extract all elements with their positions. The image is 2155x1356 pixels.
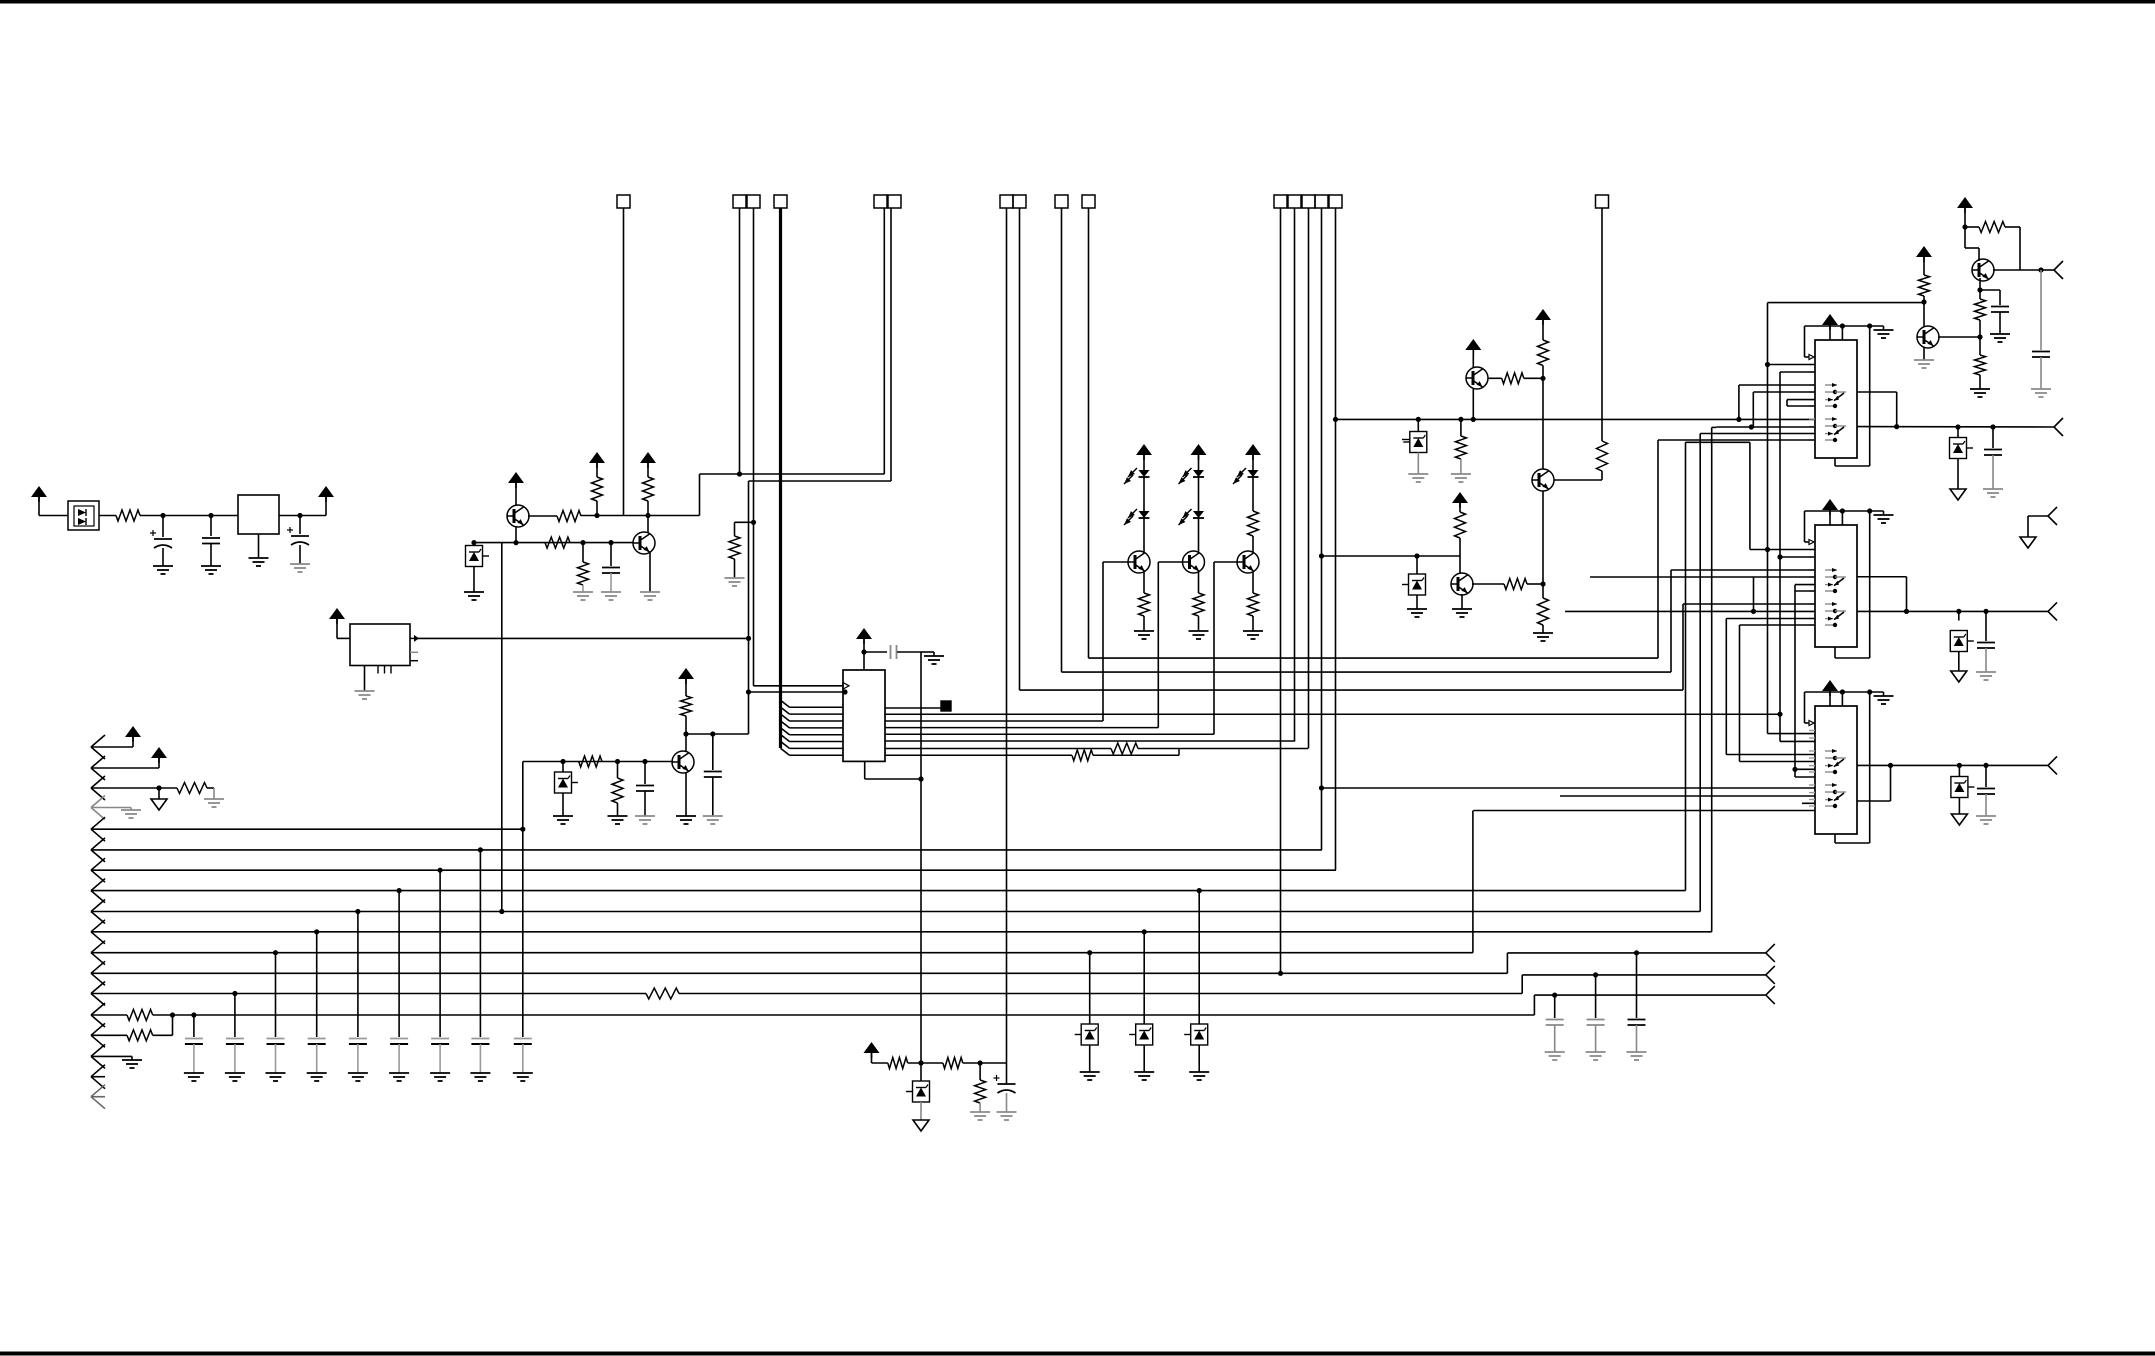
riser line8 bbox=[1685, 442, 1687, 890]
ground bbox=[266, 1072, 286, 1074]
open triangle gnd bbox=[151, 799, 167, 810]
transistor Q2 bbox=[647, 516, 649, 534]
resistor R5 bbox=[545, 537, 570, 548]
U4 top rail bbox=[1805, 510, 1884, 512]
U5 top rail bbox=[1805, 691, 1884, 693]
U3 enable bracket bbox=[1804, 326, 1806, 357]
VCC arrow Q8 bbox=[1452, 492, 1468, 503]
gray ground bbox=[734, 559, 736, 578]
VCC arrow Q1 bbox=[508, 472, 524, 483]
riser line14 (ANT line3) bbox=[1533, 995, 1535, 1015]
antenna out1 bbox=[2041, 269, 2054, 271]
pin2 dot bbox=[842, 689, 847, 694]
wire base-left riser x=502 bbox=[501, 543, 503, 912]
zener Z6 bbox=[1956, 609, 1961, 614]
node n3 bbox=[297, 513, 302, 518]
ground bbox=[184, 1072, 204, 1074]
capacitor C12 bbox=[1983, 763, 1988, 768]
VCC arrow Q3 bbox=[678, 668, 694, 679]
capacitor CC5 bbox=[357, 912, 359, 1029]
ANT_B3 main line bbox=[1857, 764, 2048, 766]
node bbox=[1962, 224, 1967, 229]
conn arrow A2 bbox=[91, 756, 105, 768]
U5 switch contacts bbox=[1825, 750, 1837, 752]
resistor R24 bbox=[1975, 299, 1986, 320]
wire to R7 bbox=[735, 521, 754, 523]
U4 pin3 line (y=570) from riser bbox=[1671, 569, 1815, 571]
ground bbox=[1243, 630, 1263, 632]
connector pad J8a bbox=[1274, 195, 1287, 208]
gray ground bbox=[573, 591, 593, 593]
VCC arrow Q9 bbox=[1535, 309, 1551, 320]
conn arrow A17 bbox=[91, 1065, 105, 1077]
U4 top-switch output wrap bbox=[1857, 576, 1907, 578]
ground bbox=[513, 1072, 533, 1074]
antenna AL1 bbox=[1766, 944, 1775, 953]
ground bbox=[201, 565, 221, 567]
transistor Q6 bbox=[1237, 551, 1259, 573]
wire J8d drop bbox=[1321, 208, 1323, 850]
resistor R6 bbox=[580, 540, 585, 545]
node bbox=[1921, 299, 1926, 304]
wire bbox=[140, 515, 238, 517]
U3 switch contacts bbox=[1825, 384, 1837, 386]
node bbox=[594, 513, 599, 518]
line y=788 to U5 bbox=[1322, 787, 1816, 789]
capacitor CC3 bbox=[275, 953, 277, 1028]
resistor R10 bbox=[615, 759, 620, 764]
conn arrow bus9 bbox=[91, 900, 105, 912]
LED base risers bbox=[1102, 562, 1104, 721]
VCC arrow R4 bbox=[640, 452, 656, 463]
node bbox=[1540, 581, 1545, 586]
U4 pin9 to U5 pin3 bus bbox=[1726, 618, 1815, 620]
U4 right wrap bbox=[1869, 511, 1871, 658]
resistor R32 bbox=[943, 1058, 963, 1069]
zener Z5 bbox=[1955, 424, 1960, 429]
resistor R9 bbox=[579, 756, 602, 767]
conn arrow bus13 bbox=[91, 982, 105, 994]
wire J8e drop bbox=[1335, 208, 1337, 870]
connector pad J2a bbox=[733, 195, 746, 208]
switch IC U5 box bbox=[1815, 706, 1857, 834]
riser line11 bbox=[1472, 811, 1474, 953]
connector pad J2b bbox=[747, 195, 760, 208]
capacitor C11 bbox=[1983, 609, 1988, 614]
ground bbox=[225, 1072, 245, 1074]
Q3 base line bbox=[523, 761, 673, 763]
capacitor CC1 bbox=[193, 1015, 195, 1028]
line y=797 to U5 bbox=[1560, 795, 1815, 797]
conn arrow bus8 bbox=[91, 879, 105, 891]
conn arrow A4 bbox=[91, 796, 105, 808]
wire bbox=[1965, 247, 1979, 249]
Q1 emitter to base line bbox=[515, 526, 517, 543]
switch IC U4 box bbox=[1815, 525, 1857, 647]
transistor Q7 bbox=[1465, 339, 1481, 350]
node bbox=[978, 1060, 983, 1065]
ground bbox=[290, 563, 310, 565]
resistor R28 inline bbox=[646, 988, 679, 999]
Q2 base line bbox=[474, 542, 633, 544]
connector pad J5a bbox=[1000, 195, 1013, 208]
capacitor C13 polarized bbox=[998, 1083, 1016, 1085]
bus wire J3 (thick) bbox=[779, 208, 782, 748]
riser line13 (ANT line2) bbox=[1521, 975, 1523, 994]
U4 pins 5-6 bracket x=1795 bbox=[1795, 584, 1815, 586]
transistor Q3 bbox=[685, 734, 687, 752]
line y=303 bbox=[1768, 302, 1925, 304]
node line5 bbox=[520, 827, 525, 832]
VCC arrow A2 bbox=[151, 747, 167, 758]
bus x=1780 (U3 pin2 - U5 pin2) bbox=[1779, 372, 1781, 741]
U3 pin stubs bbox=[1809, 364, 1815, 366]
resistor R1 bbox=[116, 510, 140, 521]
Q2 emitter ground bbox=[649, 552, 651, 592]
connector pad J4a bbox=[874, 195, 887, 208]
VCC arrow Q11 bbox=[1916, 246, 1932, 257]
U3 top rail bbox=[1805, 325, 1884, 327]
ground bbox=[307, 1072, 327, 1074]
wire to Q3 collector bbox=[686, 733, 749, 735]
wire bbox=[528, 515, 557, 517]
riser line10 bbox=[1711, 427, 1713, 931]
wire bbox=[99, 515, 116, 517]
resistor R25 bbox=[1979, 337, 1981, 355]
VCC arrow U4 bbox=[1822, 499, 1838, 510]
wire J5a drop bbox=[1006, 208, 1008, 1063]
capacitor C4 bbox=[608, 540, 613, 545]
capacitor C2 bbox=[210, 516, 212, 537]
antenna AL3 bbox=[1766, 986, 1775, 995]
border bottom bbox=[0, 1352, 2155, 1356]
U3 pin3 wrap to pin7 line bbox=[1739, 384, 1815, 386]
wire J4a net y=474 bbox=[700, 473, 885, 475]
wire J2a bbox=[739, 208, 741, 474]
VCC arrow U2 bbox=[856, 628, 872, 639]
resistor R8 bbox=[681, 696, 692, 716]
capacitor CA1 bbox=[1552, 993, 1557, 998]
capacitor CC6 bbox=[398, 891, 400, 1028]
conn arrow bus11 bbox=[91, 941, 105, 953]
ground osc bbox=[364, 666, 366, 692]
ground bbox=[1189, 630, 1209, 632]
wire J4b net y=481 bbox=[749, 480, 892, 482]
bus x=1767.5 (U3 pin1 - U5 pin1) bbox=[1767, 303, 1769, 734]
conn arrow A1 bbox=[91, 735, 105, 747]
VCC arrow PS input bbox=[31, 486, 47, 497]
ANT0 main line bbox=[1857, 426, 2054, 428]
diode bridge D1 bbox=[68, 501, 99, 530]
resistor R18 bbox=[1455, 512, 1466, 538]
IC U2 box bbox=[843, 670, 885, 761]
wire J5b drop bbox=[1019, 208, 1021, 690]
node bbox=[861, 649, 866, 654]
resistor R29 inline bbox=[127, 1010, 153, 1021]
wire out bbox=[1993, 269, 2041, 271]
LED D2b bbox=[1139, 511, 1150, 518]
ground bbox=[258, 534, 260, 558]
resistor R31 bbox=[888, 1058, 908, 1069]
transistor Q8 bbox=[1459, 556, 1461, 574]
riser line12 (ANT line1) bbox=[1506, 953, 1508, 973]
wire Q9 column bbox=[1542, 491, 1544, 584]
oscillator module X1 bbox=[350, 624, 410, 666]
resistor R21 bbox=[1538, 340, 1549, 366]
riser to U4 pin3 bbox=[1670, 570, 1672, 672]
capacitor CA3 bbox=[1634, 950, 1639, 955]
antenna ANT_B2 bbox=[2048, 602, 2057, 611]
node bbox=[683, 731, 688, 736]
switch IC U3 box bbox=[1815, 340, 1857, 458]
wire bbox=[581, 515, 700, 517]
conn arrow bus7 bbox=[91, 858, 105, 870]
transistor Q10 bbox=[1972, 259, 1994, 281]
wire J6 drop bbox=[1061, 208, 1063, 672]
ground bbox=[470, 1072, 490, 1074]
resistor R20 bbox=[1538, 598, 1549, 625]
wire pin2 feed bbox=[749, 691, 844, 693]
U3 pins 5-6 bracket bbox=[1787, 399, 1815, 401]
U5 enable bracket bbox=[1804, 692, 1806, 723]
conn arrow A16 bbox=[91, 1044, 105, 1056]
osc output wire bbox=[410, 637, 418, 639]
emitter resistor bbox=[1252, 572, 1254, 593]
LED D4a bbox=[1248, 470, 1259, 477]
U4 pin7 line (y=604) from riser bbox=[1683, 603, 1815, 605]
bus fan to IC pins bbox=[781, 700, 790, 707]
VCC arrow LED2 bbox=[1191, 444, 1207, 455]
capacitor CC4 bbox=[316, 932, 318, 1028]
resistor R17 bbox=[1458, 417, 1463, 422]
U4 pin10 to U5 pin4 bus bbox=[1740, 624, 1816, 626]
capacitor C6 bbox=[642, 759, 647, 764]
connector pad J8e bbox=[1329, 195, 1342, 208]
wire wrap right bbox=[920, 652, 922, 1063]
connector pad J3 bbox=[774, 195, 787, 208]
capacitor C5 bbox=[710, 731, 715, 736]
connector pad J5b bbox=[1013, 195, 1026, 208]
U3 top-switch output wrap bbox=[1857, 391, 1897, 393]
resistor R2 bbox=[557, 511, 581, 522]
node bbox=[918, 1060, 923, 1065]
resistor R26 bbox=[1919, 275, 1930, 296]
resistor R3 bbox=[592, 477, 603, 501]
conn arrow bus12 bbox=[91, 961, 105, 973]
connector pad J6 bbox=[1055, 195, 1068, 208]
antenna ANT0 bbox=[2054, 418, 2063, 427]
wire J8a drop bbox=[1280, 208, 1282, 973]
zener Z7 bbox=[1957, 763, 1962, 768]
U4 enable bracket bbox=[1804, 511, 1806, 542]
VCC arrow R3 bbox=[589, 452, 605, 463]
mini ground antenna bbox=[2048, 507, 2057, 516]
LED D3a bbox=[1193, 470, 1204, 477]
wire base corner bbox=[522, 762, 524, 1029]
transistor Q4 bbox=[1128, 551, 1150, 573]
pins right bbox=[410, 651, 418, 653]
U5 bottom-switch output wrap bbox=[1857, 800, 1891, 802]
line y=419.4 bbox=[1336, 418, 1816, 420]
Q11 emitter ground bbox=[1923, 347, 1925, 360]
wire merge to line14 bbox=[172, 1015, 174, 1035]
conn arrow bus14 bbox=[91, 1003, 105, 1015]
capacitor CC9 bbox=[522, 1028, 524, 1037]
wire J2b bbox=[753, 208, 755, 686]
emitter resistor bbox=[1198, 572, 1200, 593]
emitter resistor bbox=[1143, 572, 1145, 593]
resistor R7 bbox=[729, 536, 740, 559]
U4 pin4 wrap bbox=[1753, 577, 1755, 611]
wire bbox=[279, 515, 326, 517]
zener Z1 box bbox=[471, 540, 476, 545]
node J2b-tap bbox=[751, 520, 756, 525]
U5 right wrap bbox=[1869, 692, 1871, 843]
transistor Q1 bbox=[507, 505, 529, 527]
line y=810 to U5 bbox=[1473, 810, 1815, 812]
U3 pin8 line (y=433.5) from riser bbox=[1700, 433, 1815, 435]
open triangle gnd bbox=[913, 1120, 929, 1131]
border top bbox=[0, 0, 2155, 4]
resistor R30 inline bbox=[127, 1030, 153, 1041]
resistor R11 bbox=[1111, 743, 1138, 754]
capacitor C8 bbox=[2040, 270, 2042, 350]
transistor Q11 bbox=[1917, 326, 1939, 348]
no-connect square bbox=[941, 701, 951, 711]
node n2 bbox=[208, 513, 213, 518]
ground bbox=[430, 1072, 450, 1074]
voltage regulator U10 bbox=[238, 495, 279, 534]
capacitor C10 bbox=[1990, 424, 1995, 429]
transistor Q5 bbox=[1183, 551, 1205, 573]
resistor R15 bbox=[1248, 511, 1259, 536]
ground bbox=[348, 1072, 368, 1074]
wire J9 drop bbox=[1601, 208, 1603, 441]
gray ground bbox=[204, 798, 224, 800]
resistor R12 bbox=[1072, 750, 1093, 761]
resistor R33 bbox=[979, 1063, 981, 1080]
conn arrow bus5 bbox=[91, 817, 105, 829]
VCC arrow LED3 bbox=[1245, 444, 1261, 455]
resistor R27 bbox=[177, 783, 207, 794]
zener Z8 bbox=[920, 1063, 922, 1081]
conn arrow bus10 bbox=[91, 920, 105, 932]
transistor Q9 bbox=[1532, 469, 1554, 491]
wire J8b drop bbox=[1294, 208, 1296, 741]
node bbox=[918, 776, 923, 781]
ANT0 west segment bbox=[1716, 426, 1815, 428]
connector pad J9 bbox=[1596, 195, 1609, 208]
resistor R23 bbox=[1965, 226, 1979, 228]
emitter chain bbox=[1979, 278, 1981, 299]
wire J7 drop bbox=[1088, 208, 1090, 658]
LED D3b bbox=[1193, 511, 1204, 518]
U3 right wrap bbox=[1869, 326, 1871, 466]
VCC arrow U3 bbox=[1822, 314, 1838, 325]
connector pad J8c bbox=[1302, 195, 1315, 208]
wire x=748.5 down bbox=[748, 481, 750, 734]
connector pad J8d bbox=[1315, 195, 1328, 208]
VCC arrow LED1 bbox=[1136, 444, 1152, 455]
resistor R16 bbox=[1488, 377, 1502, 379]
connector pad J1 bbox=[617, 195, 630, 208]
ground bbox=[153, 565, 173, 567]
node bbox=[2038, 267, 2043, 272]
node bbox=[1977, 334, 1982, 339]
capacitor CA2 bbox=[1593, 972, 1598, 977]
LED D2a bbox=[1139, 470, 1150, 477]
capacitor CC2 bbox=[234, 994, 236, 1029]
VCC arrow PS out bbox=[325, 497, 327, 516]
U5 pin10 stub bbox=[1802, 802, 1815, 804]
capacitor CC7 bbox=[439, 870, 441, 1028]
gray ground bbox=[121, 809, 141, 811]
zener ZB2 bbox=[1142, 929, 1147, 934]
connector pad J8b bbox=[1288, 195, 1301, 208]
gray ground bbox=[601, 591, 621, 593]
U4 pin stubs bbox=[1809, 549, 1815, 551]
conn arrow bus15 bbox=[91, 1023, 105, 1035]
riser to U4 pin7 bbox=[1682, 604, 1684, 690]
conn arrow A18 bbox=[91, 1085, 105, 1097]
conn arrow A3 bbox=[91, 776, 105, 788]
VCC arrow TRIM bbox=[864, 1042, 880, 1053]
VCC arrow osc bbox=[329, 608, 345, 619]
VCC arrow A1 bbox=[125, 726, 141, 737]
zener Z2 box bbox=[560, 759, 565, 764]
node n1 bbox=[160, 513, 165, 518]
U3 pin9 line (y=440) from riser bbox=[1658, 439, 1815, 441]
zener ZB3 bbox=[1197, 888, 1202, 893]
U5 pin stubs bbox=[1809, 730, 1815, 732]
resistor R19 bbox=[1472, 583, 1504, 585]
capacitor CC8 bbox=[479, 850, 481, 1028]
node bbox=[645, 513, 650, 518]
ground bbox=[122, 1059, 142, 1061]
connector pad J4b bbox=[888, 195, 901, 208]
antenna ANT_B3 bbox=[2048, 756, 2057, 765]
capacitor C3 polarized bbox=[299, 516, 301, 535]
wire J8c drop bbox=[1308, 208, 1310, 749]
zener ZB1 bbox=[1087, 950, 1092, 955]
riser line9 bbox=[1699, 434, 1701, 912]
resistor R22 bbox=[1597, 441, 1608, 471]
zener Z3 box bbox=[1416, 417, 1421, 422]
IC right rows bbox=[885, 707, 941, 709]
connector pad J7 bbox=[1082, 195, 1095, 208]
wire J1 drop bbox=[623, 208, 625, 516]
U3 pin4 wrap to main bbox=[1753, 391, 1815, 393]
ground bbox=[921, 651, 934, 653]
resistor R4 bbox=[643, 477, 654, 501]
wire to IC bottom bbox=[865, 778, 921, 780]
antenna AL2 bbox=[1766, 966, 1775, 975]
capacitor C1 polarized bbox=[162, 516, 164, 538]
U4 main west stub bbox=[1565, 610, 1815, 612]
line y=556 from J8d bbox=[1322, 555, 1461, 557]
ANT_B2 main line bbox=[1857, 610, 2048, 612]
capacitor C7 bbox=[864, 651, 887, 653]
ground bbox=[389, 1072, 409, 1074]
conn arrow bus6 bbox=[91, 838, 105, 850]
VCC arrow U5 bbox=[1822, 680, 1838, 691]
node osc-out bbox=[746, 636, 751, 641]
ground bbox=[464, 591, 484, 593]
ground bbox=[1134, 630, 1154, 632]
ground bbox=[676, 815, 696, 817]
pins bottom bbox=[377, 666, 379, 674]
capacitor C9 bbox=[1980, 289, 2000, 291]
